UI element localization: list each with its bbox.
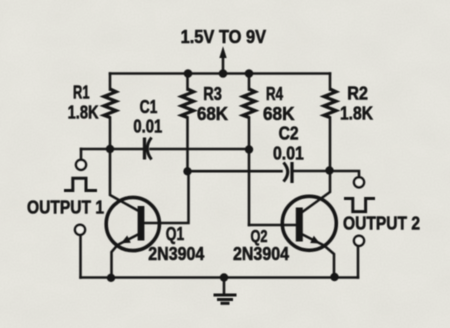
svg-text:R3: R3 — [203, 84, 222, 104]
svg-text:C1: C1 — [140, 97, 158, 117]
svg-text:2N3904: 2N3904 — [148, 244, 204, 264]
svg-text:R2: R2 — [347, 84, 368, 104]
svg-text:R1: R1 — [73, 83, 90, 103]
svg-text:1.5V TO 9V: 1.5V TO 9V — [181, 27, 267, 47]
svg-text:OUTPUT 2: OUTPUT 2 — [343, 214, 420, 234]
svg-text:Q1: Q1 — [166, 224, 184, 244]
svg-text:Q2: Q2 — [251, 226, 268, 246]
svg-text:0.01: 0.01 — [273, 144, 304, 164]
svg-text:0.01: 0.01 — [133, 117, 162, 137]
svg-text:R4: R4 — [266, 84, 283, 104]
svg-text:OUTPUT 1: OUTPUT 1 — [27, 198, 104, 218]
svg-text:C2: C2 — [279, 124, 299, 144]
svg-text:68K: 68K — [263, 104, 295, 124]
svg-text:2N3904: 2N3904 — [233, 244, 289, 264]
svg-text:1.8K: 1.8K — [340, 104, 373, 124]
svg-text:1.8K: 1.8K — [68, 103, 99, 123]
svg-text:68K: 68K — [197, 104, 228, 124]
